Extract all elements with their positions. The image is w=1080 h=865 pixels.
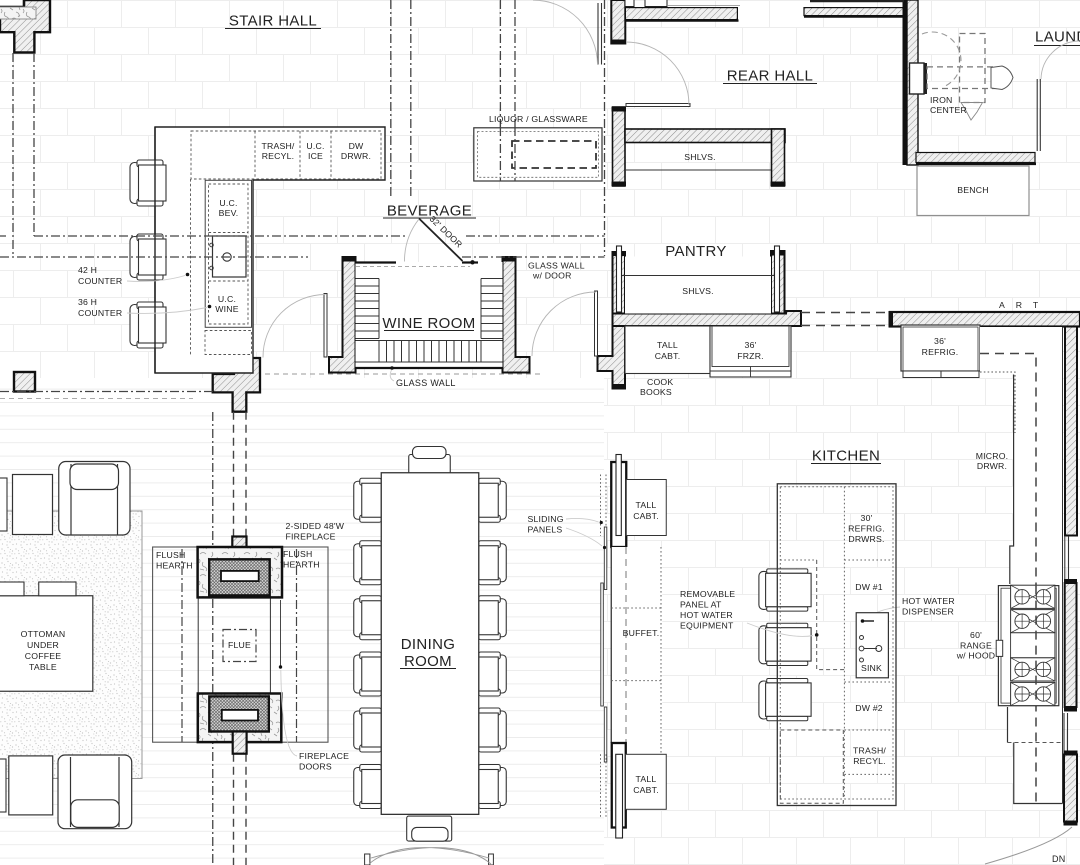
svg-text:FIREPLACE: FIREPLACE <box>299 751 349 761</box>
svg-text:U.C.: U.C. <box>218 294 236 304</box>
rear hall door leaf <box>626 104 690 107</box>
iron board <box>991 66 1013 90</box>
hearth slab <box>153 547 328 742</box>
plain chair top <box>13 475 53 535</box>
dash-dot beverage pair <box>391 0 411 197</box>
svg-text:UNDER: UNDER <box>27 640 59 650</box>
svg-text:w/ DOOR: w/ DOOR <box>532 271 572 281</box>
dn arc <box>985 827 1072 864</box>
mud room bottom wall band <box>916 153 1035 163</box>
svg-text:DISPENSER: DISPENSER <box>902 607 954 617</box>
area rug <box>0 511 142 779</box>
firebox slot bottom <box>222 710 258 721</box>
svg-text:TALL: TALL <box>636 774 657 784</box>
svg-text:KITCHEN: KITCHEN <box>812 448 880 465</box>
dash-dot hearth left x182 <box>181 549 183 742</box>
chimney dashed pair <box>234 412 247 865</box>
svg-text:ART: ART <box>999 300 1049 310</box>
head chair bottom <box>407 816 452 841</box>
svg-text:MICRO.: MICRO. <box>976 451 1009 461</box>
dash-dot horizontal y391 <box>0 391 213 393</box>
tall cab 2 bold <box>612 743 626 828</box>
burner module 1 <box>1011 585 1055 608</box>
pantry left wall with foot <box>598 252 626 389</box>
tall cab 2 label box <box>626 754 667 809</box>
svg-text:SLIDING: SLIDING <box>528 514 564 524</box>
window right wall <box>1065 536 1069 579</box>
dash-dot vertical x604 rear hall <box>604 0 606 256</box>
svg-text:COUNTER: COUNTER <box>78 308 122 318</box>
svg-text:FLUSH: FLUSH <box>156 550 185 560</box>
svg-text:EQUIPMENT: EQUIPMENT <box>680 621 734 631</box>
wine room right wall <box>503 257 530 373</box>
dash-dot lines over cabinet <box>500 127 515 181</box>
svg-text:FIREPLACE: FIREPLACE <box>286 532 336 542</box>
svg-text:BEVERAGE: BEVERAGE <box>387 203 472 220</box>
chimney stem top <box>232 537 246 549</box>
svg-text:DN: DN <box>1052 854 1066 864</box>
buffet body <box>611 547 662 756</box>
counter stool 3 <box>130 302 166 348</box>
svg-text:RECYL.: RECYL. <box>262 151 295 161</box>
dash-dot grid line left A <box>12 53 14 257</box>
pantry/kitchen horizontal wall band <box>613 311 802 326</box>
svg-text:U.C.: U.C. <box>306 141 324 151</box>
masonry top <box>198 547 282 597</box>
faucet group <box>859 619 882 662</box>
sliding panel 1 <box>604 527 607 590</box>
range hood outer <box>998 586 1058 706</box>
kitchen right wall lower <box>1064 755 1077 822</box>
counter left edge over stools <box>154 127 156 373</box>
liquor cabinet outline <box>474 128 602 181</box>
masonry bottom <box>198 694 281 743</box>
svg-text:DRWR.: DRWR. <box>341 151 371 161</box>
svg-text:CABT.: CABT. <box>633 785 659 795</box>
dotted y560 <box>780 559 893 561</box>
svg-text:PANEL AT: PANEL AT <box>680 600 722 610</box>
iron board dashed band <box>927 67 997 89</box>
32 door leaf diagonal <box>419 219 463 262</box>
rear hall closet left wall <box>613 107 626 186</box>
svg-text:GLASS WALL: GLASS WALL <box>528 261 585 271</box>
svg-text:DRWR.: DRWR. <box>977 461 1007 471</box>
removable panel dot <box>815 633 819 637</box>
fireplace doors line <box>280 600 282 666</box>
laundry door arc <box>1041 41 1079 79</box>
glass wall bottom <box>356 367 503 369</box>
closet shelf line <box>625 169 771 171</box>
rear hall left wall upper <box>611 0 625 44</box>
sliding panel track top <box>601 475 607 537</box>
wine room left wall <box>329 257 356 373</box>
svg-text:SHLVS.: SHLVS. <box>682 286 713 296</box>
sliding panel track bottom <box>601 754 607 818</box>
hanging garment <box>961 103 983 121</box>
svg-text:REFRIG.: REFRIG. <box>922 347 959 357</box>
glass upright right <box>775 246 780 312</box>
tall cabinet box <box>625 326 710 374</box>
svg-text:ICE: ICE <box>308 151 323 161</box>
bottom door arcs <box>369 848 491 864</box>
dashed knee panel step <box>817 560 845 670</box>
island outline <box>777 484 896 806</box>
svg-text:STAIR HALL: STAIR HALL <box>229 13 317 30</box>
island stool 3 <box>759 679 811 721</box>
svg-text:DINING: DINING <box>401 636 456 653</box>
dash-dot fireplace axis x212 <box>212 412 214 865</box>
wood plank floor region (living + dining) <box>0 378 604 865</box>
svg-text:WINE: WINE <box>215 304 238 314</box>
dash-dot horizontal y257 <box>0 256 605 258</box>
svg-text:BOOKS: BOOKS <box>640 387 672 397</box>
svg-text:60': 60' <box>970 630 982 640</box>
svg-text:DOORS: DOORS <box>299 762 332 772</box>
dash-dot hearth right x296 <box>296 549 298 742</box>
beverage glass door leaf <box>598 3 602 65</box>
right counter outline <box>1008 327 1063 804</box>
rear hall closet top band <box>625 129 785 143</box>
rear hall door arc <box>626 42 689 105</box>
svg-text:36 H: 36 H <box>78 297 97 307</box>
fridge 36 <box>901 325 980 371</box>
svg-text:OTTOMAN: OTTOMAN <box>21 629 66 639</box>
right side chairs <box>479 478 507 808</box>
kitchen right wall mid <box>1065 583 1077 707</box>
glass upright left <box>617 246 622 312</box>
island dotted divider <box>843 487 845 799</box>
kitchen dotted upper-cab line <box>980 372 1015 433</box>
pantry right wall <box>771 251 785 314</box>
door hinge segment <box>462 261 478 263</box>
svg-text:FRZR.: FRZR. <box>737 351 764 361</box>
mud room right wall <box>907 0 918 165</box>
svg-text:COOK: COOK <box>647 377 673 387</box>
svg-text:GLASS WALL: GLASS WALL <box>396 378 456 388</box>
svg-text:TALL: TALL <box>636 500 657 510</box>
window right wall lower <box>1064 713 1068 751</box>
pantry side door arc <box>532 292 596 356</box>
laundry glass wall <box>1037 79 1040 151</box>
flue dashdot box <box>223 630 256 662</box>
svg-text:TALL: TALL <box>657 340 678 350</box>
freezer <box>710 326 791 377</box>
svg-text:BEV.: BEV. <box>219 208 239 218</box>
armchair bottom <box>58 755 132 829</box>
burner module 3 <box>1011 658 1055 681</box>
tall cab 1 bold <box>611 462 626 547</box>
stair inner room top-left <box>0 0 24 7</box>
svg-text:BENCH: BENCH <box>957 185 988 195</box>
svg-text:DW #2: DW #2 <box>855 703 883 713</box>
svg-text:LAUNDRY: LAUNDRY <box>1035 29 1080 46</box>
bottom wine rack <box>356 341 503 363</box>
micro drawer dashed box <box>1016 432 1052 492</box>
island stool 1 <box>759 569 811 611</box>
stair landing speckle strip <box>0 7 36 19</box>
prep sink <box>210 236 246 277</box>
tall cab 1 inner glass <box>616 455 621 536</box>
dashed knee panel bottom <box>780 730 843 803</box>
T-pier below counter <box>213 358 260 412</box>
cabinet dashed boxes top strip <box>191 131 381 179</box>
sliding panel 2 <box>601 583 604 706</box>
dashed line y398 <box>0 398 193 400</box>
svg-text:CENTER: CENTER <box>930 105 967 115</box>
dash-dot horizontal y236 <box>0 235 605 237</box>
top edge fragments <box>625 0 904 7</box>
dotted separators right col <box>844 682 893 774</box>
svg-text:HOT WATER: HOT WATER <box>680 610 733 620</box>
burner module 2 <box>1011 610 1055 633</box>
kitchen top wall right <box>890 312 1080 327</box>
chimney stem bottom <box>233 732 247 754</box>
svg-text:REFRIG.: REFRIG. <box>848 524 885 534</box>
cabinet dashed boxes vertical strip <box>205 180 251 327</box>
left wine rack <box>356 279 380 339</box>
bold dashed inner box <box>512 141 596 168</box>
svg-text:TABLE: TABLE <box>29 662 57 672</box>
wall top-left corner pier <box>0 0 50 53</box>
svg-text:REAR HALL: REAR HALL <box>727 68 814 85</box>
bottom double door jamb right <box>489 854 494 865</box>
svg-text:COUNTER: COUNTER <box>78 276 122 286</box>
svg-text:FLUE: FLUE <box>228 640 251 650</box>
svg-text:36': 36' <box>745 340 757 350</box>
kitchen dashed centerline x1036 <box>980 354 1036 804</box>
tall cab 2 inner glass <box>616 754 623 838</box>
hood knob <box>996 640 1003 656</box>
svg-text:HEARTH: HEARTH <box>156 561 193 571</box>
pier lower-left <box>14 372 35 392</box>
armchair top <box>59 462 130 536</box>
svg-text:REMOVABLE: REMOVABLE <box>680 589 735 599</box>
tall cab 1 label box <box>626 480 666 536</box>
iron center dashed cab <box>960 34 986 103</box>
glass wall top segment <box>356 261 397 263</box>
left side chairs <box>354 478 382 808</box>
sliding panel 3 <box>604 707 607 762</box>
svg-text:HEARTH: HEARTH <box>283 560 320 570</box>
svg-text:COFFEE: COFFEE <box>25 651 61 661</box>
counter stool 2 <box>130 234 166 280</box>
iron center wall unit <box>910 63 925 94</box>
svg-text:42 H: 42 H <box>78 265 97 275</box>
bottom double door jamb left <box>365 854 370 865</box>
kitchen centerline over range <box>1035 586 1037 706</box>
svg-text:w/ HOOD: w/ HOOD <box>956 651 996 661</box>
inner fine dashed <box>478 132 599 178</box>
firebox bottom <box>209 696 268 731</box>
head chair top <box>409 447 451 475</box>
hinge dot <box>470 260 474 264</box>
svg-text:DRWRS.: DRWRS. <box>848 534 884 544</box>
wine room floor <box>356 262 503 368</box>
dash-dot liquor pair <box>500 0 515 181</box>
svg-text:SHLVS.: SHLVS. <box>684 152 715 162</box>
svg-text:BUFFET.: BUFFET. <box>623 628 660 638</box>
svg-text:WINE ROOM: WINE ROOM <box>382 315 475 332</box>
svg-text:2-SIDED 48'W: 2-SIDED 48'W <box>286 521 345 531</box>
svg-text:U.C.: U.C. <box>219 198 237 208</box>
bench <box>917 166 1029 216</box>
svg-text:SINK: SINK <box>861 663 882 673</box>
kitchen wall dashed opening <box>801 313 890 326</box>
svg-text:36': 36' <box>934 336 946 346</box>
pantry side door leaf <box>595 291 598 356</box>
dash-dot grid line left B <box>33 53 35 236</box>
range middle <box>1011 633 1055 658</box>
mud room top wall band <box>804 8 906 16</box>
ottoman coffee table <box>0 596 93 692</box>
svg-text:ROOM: ROOM <box>404 653 452 670</box>
burner module 4 <box>1011 682 1055 705</box>
peninsula counter outline <box>155 127 385 373</box>
svg-text:DW #1: DW #1 <box>855 582 883 592</box>
svg-text:RANGE: RANGE <box>960 641 992 651</box>
island inner dotted <box>780 487 893 799</box>
svg-text:LIQUOR / GLASSWARE: LIQUOR / GLASSWARE <box>489 114 588 124</box>
island stool 2 <box>759 623 811 665</box>
svg-text:FLUSH: FLUSH <box>283 549 312 559</box>
svg-text:CABT.: CABT. <box>655 351 681 361</box>
svg-text:HOT WATER: HOT WATER <box>902 596 955 606</box>
right counter white fill <box>980 327 1063 804</box>
pantry shelf area <box>625 257 771 314</box>
svg-text:DW: DW <box>349 141 364 151</box>
rear hall top wall band <box>625 8 737 20</box>
rear hall closet right wall <box>772 129 785 186</box>
plain chair bottom <box>9 756 53 815</box>
firebox top <box>209 559 270 595</box>
dining table <box>381 473 479 815</box>
svg-text:30': 30' <box>861 513 873 523</box>
island sink cabinet <box>856 613 888 678</box>
kitchen right wall upper <box>1065 327 1077 536</box>
svg-text:TRASH/: TRASH/ <box>261 141 294 151</box>
firebox slot top <box>221 571 259 581</box>
right wine rack <box>481 279 503 339</box>
beverage glass door arc <box>533 0 598 64</box>
svg-text:TRASH/: TRASH/ <box>853 746 886 756</box>
svg-text:IRON: IRON <box>930 95 953 105</box>
counter stool 1 <box>130 160 166 206</box>
wine room left door leaf <box>324 294 327 358</box>
svg-text:CABT.: CABT. <box>633 511 659 521</box>
fireplace body sides <box>198 597 270 693</box>
svg-text:RECYL.: RECYL. <box>853 756 886 766</box>
32 door swing arc <box>404 219 419 262</box>
iron swing arc <box>922 32 961 87</box>
wine room left door arc <box>263 295 326 358</box>
svg-text:PANELS: PANELS <box>528 525 563 535</box>
